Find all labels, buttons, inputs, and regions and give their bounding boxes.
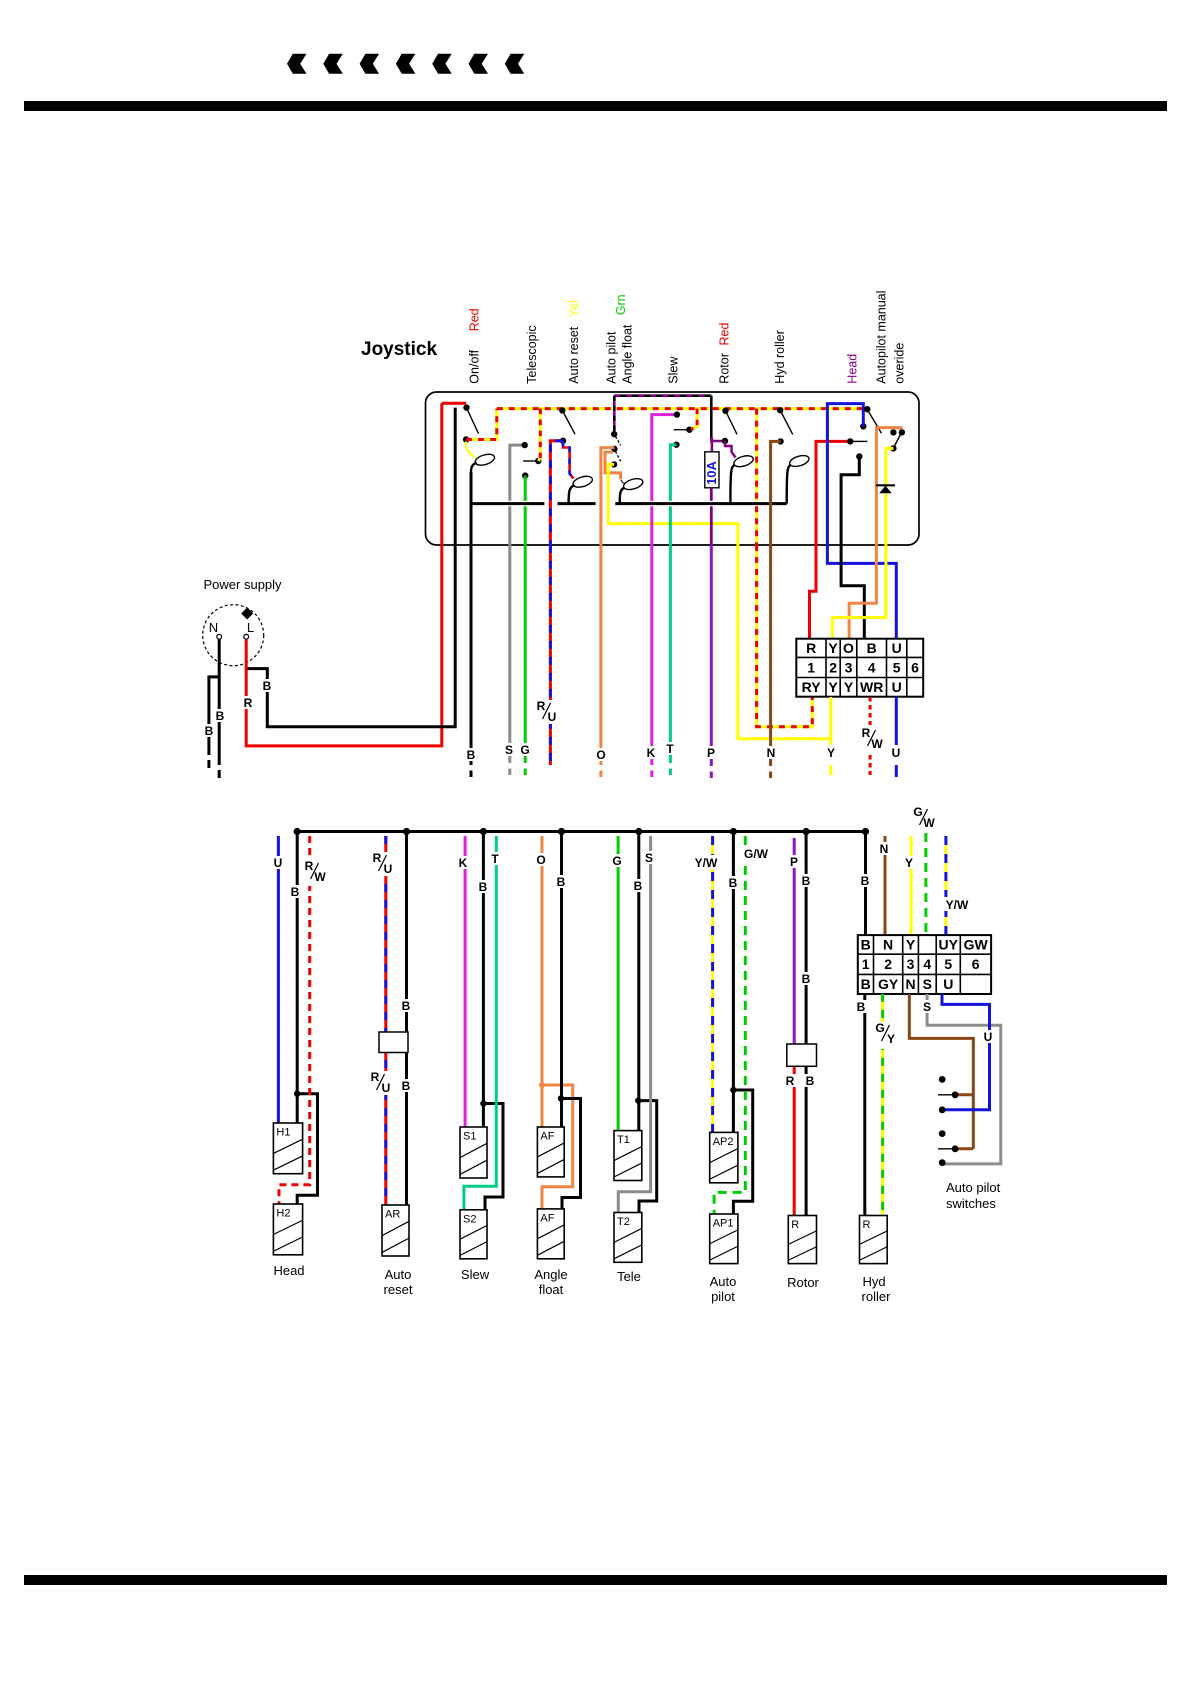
- label O: [594, 748, 608, 761]
- label Y: [825, 746, 838, 759]
- inline connector block (Rotor): [787, 1044, 817, 1066]
- svg-text:Auto: Auto: [710, 1274, 737, 1289]
- svg-text:G: G: [875, 1021, 884, 1035]
- svg-text:B: B: [802, 972, 811, 986]
- svg-text:Y/W: Y/W: [946, 898, 969, 912]
- svg-text:B: B: [861, 937, 871, 953]
- svg-text:roller: roller: [862, 1289, 892, 1304]
- svg-text:WR: WR: [860, 679, 883, 695]
- svg-text:R: R: [806, 640, 816, 656]
- svg-text:U: U: [984, 1030, 993, 1044]
- label R / B under rotor connector: [784, 1074, 797, 1087]
- label P: [705, 746, 718, 759]
- header chevron row: [287, 54, 307, 74]
- wire RY drop and jog to terminal RY: [755, 506, 758, 545]
- svg-text:G: G: [520, 743, 529, 757]
- svg-text:N: N: [883, 937, 893, 953]
- wire S grey stub: [508, 545, 511, 763]
- svg-text:O: O: [536, 853, 545, 867]
- svg-text:B: B: [729, 876, 738, 890]
- On/off pivot node: [463, 404, 469, 410]
- svg-text:U: U: [274, 856, 283, 870]
- svg-text:10A: 10A: [704, 461, 719, 485]
- wire B branch left: [209, 677, 219, 755]
- svg-text:S: S: [645, 851, 653, 865]
- svg-text:Grn: Grn: [614, 294, 628, 315]
- wire N black down: [218, 639, 221, 765]
- svg-text:Auto reset: Auto reset: [567, 326, 581, 384]
- svg-text:B: B: [802, 874, 811, 888]
- svg-text:1: 1: [862, 956, 870, 972]
- relay S2: [460, 1210, 487, 1259]
- Auto reset contact node: [560, 438, 566, 444]
- Slew teal contact (exits box): [673, 442, 679, 448]
- fuse 10A: [711, 438, 714, 452]
- Angle float contact node B: [611, 446, 617, 452]
- svg-text:R: R: [786, 1074, 795, 1088]
- label K: [457, 856, 470, 869]
- svg-text:2: 2: [829, 659, 837, 675]
- yellow Y wire from node C (exits box, jogs right): [608, 464, 738, 545]
- svg-text:R: R: [244, 696, 253, 710]
- wire R/U dashed to AR: [384, 836, 387, 1205]
- svg-text:Head: Head: [846, 354, 860, 384]
- label Y/W: [692, 855, 721, 869]
- wire B ground drop (exits box): [470, 472, 473, 765]
- label U: [272, 856, 285, 869]
- bus node x=483.4: [480, 828, 487, 835]
- label R/U: [371, 852, 395, 876]
- svg-text:6: 6: [972, 956, 980, 972]
- override orange feed (exits box): [876, 428, 901, 545]
- svg-text:1: 1: [807, 659, 815, 675]
- top rule bar: [24, 101, 1167, 111]
- svg-text:S2: S2: [463, 1213, 476, 1225]
- svg-text:K: K: [647, 746, 656, 760]
- Hyd roller brown contact (exits box): [777, 438, 783, 444]
- wire Y yellow stub into block2: [910, 836, 913, 936]
- svg-text:S: S: [923, 976, 932, 992]
- autopilot dashed drop to pivot: [613, 396, 616, 431]
- Auto pilot coil ground lead: [620, 488, 625, 504]
- Slew magenta contact elbow (exits box): [652, 415, 677, 501]
- relay R rotor: [788, 1216, 816, 1264]
- wire brown to autopilot switches: [909, 994, 973, 1149]
- svg-text:O: O: [843, 640, 854, 656]
- label U: [890, 746, 903, 759]
- wire K magenta to S1: [464, 836, 467, 1127]
- svg-text:U: U: [892, 640, 902, 656]
- svg-text:P: P: [790, 855, 798, 869]
- On/off contact node: [463, 436, 469, 442]
- wire R/W dotted below WR cell: [869, 697, 872, 725]
- Head red feed (exits box): [816, 441, 850, 545]
- svg-text:switches: switches: [946, 1196, 996, 1211]
- label P: [788, 855, 801, 868]
- svg-text:Power supply: Power supply: [204, 577, 283, 592]
- svg-text:AF: AF: [540, 1212, 554, 1224]
- RY branch to Telescopic arm: [539, 409, 541, 461]
- wire B black to H1/H2: [296, 832, 299, 1124]
- wire yellow jog to terminal Y cell: [832, 545, 886, 639]
- inline connector block (AR): [379, 1032, 408, 1053]
- label G/W fraction: [912, 806, 939, 832]
- label T: [489, 852, 502, 865]
- wire orange jog to terminal O: [849, 545, 876, 639]
- wire B black to AR: [405, 832, 408, 1206]
- svg-text:W: W: [314, 870, 326, 884]
- wire grey to autopilot switches: [927, 994, 1001, 1164]
- wire T stub: [669, 545, 672, 763]
- label R: [242, 696, 255, 709]
- svg-text:Y: Y: [887, 1032, 895, 1046]
- svg-text:3: 3: [907, 956, 915, 972]
- svg-text:Auto pilot: Auto pilot: [946, 1180, 1001, 1195]
- svg-text:S: S: [505, 743, 513, 757]
- svg-text:S1: S1: [463, 1131, 476, 1143]
- svg-text:Angle: Angle: [534, 1267, 567, 1282]
- joystick enclosure box: [426, 392, 920, 545]
- svg-text:U: U: [382, 1081, 391, 1095]
- svg-text:Auto: Auto: [385, 1267, 412, 1282]
- svg-text:B: B: [557, 875, 566, 889]
- Telescopic green contact: [522, 472, 528, 478]
- svg-text:Autopilot manual: Autopilot manual: [875, 291, 889, 384]
- label B: [800, 874, 813, 887]
- svg-text:T2: T2: [617, 1216, 630, 1228]
- svg-text:T1: T1: [617, 1134, 630, 1146]
- wire P violet to rotor connector: [793, 838, 796, 1044]
- label S: [502, 743, 515, 756]
- wire Y/W dashed to AP2: [711, 836, 714, 1132]
- svg-text:Joystick: Joystick: [361, 339, 437, 360]
- svg-text:Rotor: Rotor: [718, 353, 732, 384]
- svg-text:On/off: On/off: [468, 349, 482, 383]
- svg-text:W: W: [923, 816, 935, 830]
- Auto reset pivot on RY rail: [559, 407, 565, 413]
- svg-text:H1: H1: [276, 1127, 290, 1139]
- orange inner lead to coil: [605, 452, 621, 479]
- power supply diamond mark: [241, 608, 253, 620]
- label B: [477, 880, 490, 893]
- Hyd roller switch arm: [781, 413, 792, 435]
- Auto pilot arm 1: [616, 437, 621, 446]
- Rotor purple link: [711, 438, 722, 441]
- wire N brown stub: [769, 545, 772, 766]
- svg-text:W: W: [871, 737, 883, 751]
- bus node x=406.5: [403, 828, 410, 835]
- bus node x=865.5: [862, 828, 869, 835]
- autopilot dashed top rail (black/purple): [614, 394, 711, 397]
- wire G green to T1: [617, 836, 620, 1131]
- label B below block2: [855, 1000, 868, 1013]
- Hyd roller coil: [788, 453, 810, 468]
- svg-text:2: 2: [884, 956, 892, 972]
- svg-text:AP1: AP1: [713, 1218, 734, 1230]
- svg-text:B: B: [861, 976, 871, 992]
- label Y: [903, 856, 916, 869]
- svg-text:S: S: [923, 1000, 931, 1014]
- autopilot switch contacts: [939, 1076, 946, 1083]
- label B: [555, 875, 568, 888]
- R/U wire from Auto reset (red/blue dashed, exits box): [550, 441, 563, 545]
- Hyd roller coil ground lead: [787, 465, 791, 504]
- wire N brown stub into block2: [884, 836, 887, 936]
- svg-text:Hyd roller: Hyd roller: [773, 330, 787, 384]
- label G: [610, 854, 624, 867]
- svg-text:H2: H2: [276, 1208, 290, 1220]
- svg-text:B: B: [205, 724, 214, 738]
- wire Y/W dashed stub into block2: [944, 836, 947, 936]
- label B: [632, 879, 645, 892]
- svg-text:AF: AF: [540, 1131, 554, 1143]
- Auto reset coil: [572, 474, 594, 489]
- Head blue contact wire (exits box): [860, 423, 866, 429]
- bus node x=297.2: [294, 828, 301, 835]
- RY branch to Slew arm: [691, 409, 697, 430]
- power supply circle: [203, 605, 264, 666]
- label R/U: [536, 700, 558, 724]
- wire R/U stub: [549, 545, 552, 765]
- wire B black to T1/T2: [637, 832, 640, 1131]
- svg-text:N: N: [767, 746, 776, 760]
- svg-text:Y: Y: [906, 937, 916, 953]
- svg-text:B: B: [467, 748, 476, 762]
- wire black jog to terminal B: [841, 545, 864, 639]
- wire U blue to H1: [277, 836, 280, 1123]
- svg-text:B: B: [634, 879, 643, 893]
- lower distribution bus: [297, 830, 865, 833]
- wire P stub: [710, 545, 713, 766]
- svg-text:R: R: [373, 851, 382, 865]
- label B: [859, 874, 872, 887]
- svg-text:U: U: [892, 746, 901, 760]
- label G/Y fraction: [874, 1022, 901, 1049]
- svg-text:4: 4: [923, 956, 931, 972]
- On/off switch: red feed top: [442, 402, 466, 405]
- svg-text:T: T: [491, 852, 499, 866]
- override switch arm 2: [894, 435, 900, 447]
- Rotor coil: [733, 454, 755, 469]
- label G/W: [741, 846, 772, 860]
- svg-text:Hyd: Hyd: [862, 1274, 885, 1289]
- svg-text:P: P: [707, 746, 715, 760]
- wire R red from L to box: [246, 403, 442, 746]
- svg-text:B: B: [402, 1079, 411, 1093]
- svg-text:G/W: G/W: [744, 847, 769, 861]
- On/off switch arm: [468, 410, 479, 434]
- Slew arm: [674, 429, 690, 431]
- svg-text:Angle float: Angle float: [621, 324, 635, 384]
- relay S1: [460, 1127, 487, 1178]
- svg-text:Slew: Slew: [461, 1267, 490, 1282]
- svg-text:AR: AR: [385, 1209, 400, 1221]
- svg-text:R: R: [862, 726, 871, 740]
- svg-text:R: R: [371, 1070, 380, 1084]
- svg-text:U: U: [892, 679, 902, 695]
- svg-text:4: 4: [868, 659, 876, 675]
- wire T teal to S2: [464, 836, 496, 1210]
- RY elbow from On/off contact: [466, 409, 497, 440]
- svg-text:Y: Y: [905, 856, 913, 870]
- Head switch arm: [852, 440, 868, 442]
- label B mid AR: [399, 999, 412, 1012]
- svg-text:GW: GW: [964, 937, 989, 953]
- bus node x=806.1: [803, 828, 810, 835]
- wire G green stub: [524, 545, 527, 763]
- Auto pilot pivot node A: [611, 431, 617, 437]
- label T: [664, 742, 677, 755]
- svg-text:R: R: [537, 699, 546, 713]
- override yellow wire via diode (exits box): [886, 448, 894, 545]
- wire B black to AF1/AF2: [560, 832, 563, 1128]
- relay T2: [614, 1213, 642, 1263]
- wire O stub: [599, 545, 602, 765]
- terminal block 1: [796, 639, 923, 697]
- svg-text:B: B: [402, 999, 411, 1013]
- svg-text:Y: Y: [828, 679, 838, 695]
- label K: [645, 746, 658, 759]
- Auto reset coil ground lead: [569, 485, 575, 504]
- label B left: [202, 724, 215, 737]
- svg-text:Red: Red: [468, 308, 482, 331]
- On/off coil: [474, 452, 496, 467]
- svg-text:Tele: Tele: [617, 1269, 641, 1284]
- svg-text:R: R: [863, 1219, 871, 1231]
- svg-text:5: 5: [944, 956, 952, 972]
- bus node x=638.8: [635, 828, 642, 835]
- wire R red from connector to Rotor: [793, 1066, 796, 1216]
- svg-text:reset: reset: [384, 1282, 413, 1297]
- svg-text:GY: GY: [878, 976, 899, 992]
- autopilot switch arm 1: [938, 1094, 955, 1096]
- wire B black to box: [248, 408, 456, 727]
- wire B black to S1/S2: [482, 832, 485, 1128]
- svg-text:O: O: [596, 748, 605, 762]
- wire O orange to AF1/AF2: [541, 836, 544, 1127]
- svg-text:Telescopic: Telescopic: [525, 325, 539, 383]
- wire B black through terminal to Hyd roller: [864, 832, 867, 937]
- wire G/W green dashed to AP1: [714, 836, 745, 1214]
- svg-text:B: B: [857, 1000, 866, 1014]
- relay AP2: [710, 1132, 738, 1182]
- svg-text:B: B: [216, 709, 225, 723]
- svg-text:AP2: AP2: [713, 1136, 734, 1148]
- wire S grey to T2: [618, 836, 650, 1213]
- black contact elbow to terminal B (exits box): [856, 453, 862, 459]
- wire B black to AP2/AP1: [732, 832, 735, 1133]
- svg-text:Auto pilot: Auto pilot: [605, 331, 619, 384]
- svg-text:B: B: [861, 874, 870, 888]
- bottom rule bar: [24, 1575, 1167, 1585]
- svg-text:G: G: [612, 854, 621, 868]
- wire R/W red dashed to H2: [279, 836, 310, 1204]
- relay T1: [614, 1131, 642, 1181]
- svg-text:UY: UY: [939, 937, 959, 953]
- svg-text:B: B: [291, 885, 300, 899]
- svg-text:N: N: [905, 976, 915, 992]
- Rotor coil ground lead: [730, 465, 735, 504]
- autopilot switch arm 2: [938, 1148, 955, 1150]
- wire Y below Y cell: [829, 697, 832, 745]
- label B near box wire: [261, 679, 274, 692]
- R/U lead to Auto reset coil: [563, 441, 574, 479]
- wire B black to Rotor: [805, 832, 808, 1216]
- svg-text:T: T: [666, 742, 674, 756]
- Rotor feed drop from dashed rail: [710, 396, 713, 438]
- yellow lead to On/off coil: [466, 442, 475, 458]
- svg-text:Yel: Yel: [567, 300, 581, 317]
- svg-text:3: 3: [845, 659, 853, 675]
- internal ground bus: [471, 502, 544, 505]
- bus node x=733.4: [730, 828, 737, 835]
- relay AP1: [710, 1214, 738, 1264]
- relay AR: [382, 1205, 409, 1256]
- label B: [289, 885, 302, 898]
- svg-text:Rotor: Rotor: [787, 1275, 819, 1290]
- Auto reset switch arm: [564, 413, 576, 435]
- relay AF2: [537, 1209, 564, 1259]
- Telescopic arm: [523, 460, 538, 462]
- wire blue jog to terminal U: [827, 545, 896, 639]
- svg-text:B: B: [479, 880, 488, 894]
- svg-text:RY: RY: [802, 679, 822, 695]
- Telescopic switch: grey contact elbow: [510, 445, 525, 501]
- svg-text:G: G: [913, 805, 922, 819]
- svg-text:pilot: pilot: [711, 1289, 735, 1304]
- label U: [981, 1030, 994, 1043]
- wire G/W dashed stub into block2: [924, 833, 927, 936]
- svg-text:float: float: [539, 1282, 564, 1297]
- On/off coil ground lead: [471, 463, 477, 473]
- RY switched power rail (yellow/red dashed): [497, 407, 868, 410]
- wire G/Y dashed to Hyd roller: [881, 994, 884, 1216]
- svg-text:R: R: [305, 859, 314, 873]
- terminal block 2: [858, 935, 991, 994]
- Hyd roller pivot on RY rail: [777, 407, 783, 413]
- label O: [534, 853, 548, 866]
- relay H1: [273, 1123, 302, 1174]
- label R/W: [860, 727, 886, 753]
- svg-text:Y/W: Y/W: [695, 856, 718, 870]
- svg-text:R: R: [791, 1219, 799, 1231]
- Rotor switch arm: [727, 413, 737, 434]
- svg-text:Slew: Slew: [667, 356, 681, 384]
- label B: [727, 876, 740, 889]
- label N: [764, 746, 778, 759]
- svg-text:5: 5: [893, 659, 901, 675]
- label B right: [214, 709, 227, 722]
- Auto pilot arm 2: [616, 451, 621, 461]
- label N: [877, 842, 891, 855]
- label S: [921, 1000, 934, 1013]
- svg-text:Red: Red: [718, 323, 732, 346]
- svg-text:Y: Y: [828, 640, 838, 656]
- label G: [518, 743, 532, 756]
- svg-text:U: U: [384, 862, 393, 876]
- wire blue to autopilot switches: [942, 994, 990, 1110]
- svg-text:B: B: [806, 1074, 815, 1088]
- svg-text:U: U: [548, 710, 557, 724]
- bus node x=561.5: [558, 828, 565, 835]
- label R/U / B under AR connector: [369, 1071, 395, 1095]
- wire red jog to terminal R: [810, 545, 817, 639]
- label S: [643, 851, 656, 864]
- label B rotor mid: [800, 972, 813, 985]
- svg-text:K: K: [459, 856, 468, 870]
- label B: [464, 748, 478, 761]
- relay R hyd: [860, 1216, 888, 1264]
